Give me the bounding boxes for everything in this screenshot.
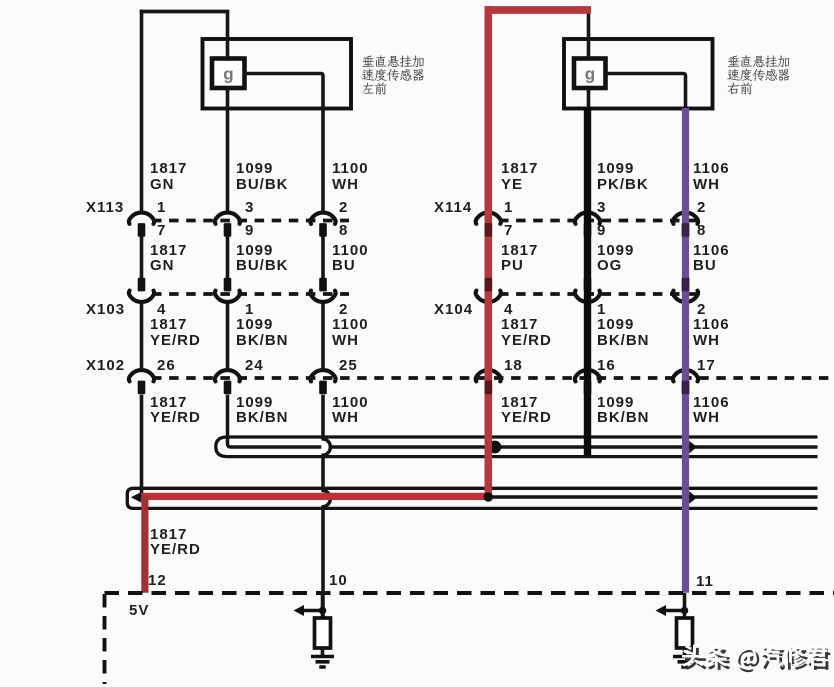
wire 1817 GN X113-X103 <box>140 237 144 279</box>
junction dot red splice <box>484 492 493 501</box>
signal arrow right (to ECU) <box>665 609 685 612</box>
pin 18 X102 <box>504 358 523 374</box>
wire: left g-box output to 1100 WH <box>245 74 324 212</box>
connector terminal X103/X104 left x=227.5 <box>215 278 240 302</box>
wire 1100 WH lower band to pin 10 and ground resistor <box>321 508 325 618</box>
pin 2 X103 <box>339 302 348 318</box>
pin 3 X114 <box>597 200 606 216</box>
pin 25 X102 <box>339 358 358 374</box>
terminal pin overlay at x=488.3 y=378 <box>485 381 493 395</box>
label circuit 1099 PK/BK top-right <box>597 161 649 192</box>
splice band upper (1099 bus) outline <box>216 437 818 457</box>
wire 1100 WH X102 to upper band hop <box>321 395 325 438</box>
connector X113 dashed line <box>152 219 349 223</box>
connector terminal X102 right x=685.5 <box>673 370 698 394</box>
label circuit 1099 BK/BN row3-right <box>597 317 650 348</box>
wire 1817 red: right vertical X114/X104/X102 <box>484 6 492 496</box>
label circuit 1099 BK/BN row4-right <box>597 395 650 426</box>
terminal pin overlay at x=685.5 y=294 <box>682 278 690 292</box>
pin 4 X103 <box>157 302 166 318</box>
connector terminal X113/X114 right x=587.5 <box>575 213 600 237</box>
pin 1 X104 <box>597 302 606 318</box>
connector terminal X102 right x=587.5 <box>575 370 600 394</box>
wire 1100 WH X113-X103 <box>321 237 325 279</box>
connector X104 label <box>434 302 473 318</box>
label circuit 1099 BU/BK top-left <box>236 161 289 192</box>
wire 1100 WH between bands <box>321 456 325 490</box>
wire: left 1099 BU/BK below g-box <box>226 88 230 212</box>
label circuit 1106 WH row4-right <box>693 395 730 426</box>
label 垂直悬挂加速度传感器 右前 <box>727 55 789 94</box>
label circuit 1099 OG row2-right <box>597 243 634 274</box>
label circuit 1099 BK/BN row4-left <box>236 395 289 426</box>
connector X102 label <box>86 358 125 374</box>
connector X104 dashed line <box>499 292 699 296</box>
junction dot left <box>319 607 327 615</box>
resistor right (pull-down) <box>677 618 693 648</box>
connector terminal X103/X104 right x=488.3 <box>476 278 501 302</box>
label circuit 1100 WH row3-left <box>332 317 369 348</box>
pin 1 X103 <box>245 302 254 318</box>
wire 1099 PK/BK thick black vertical <box>584 108 591 455</box>
wire: right g-box output to 1106 WH <box>606 74 686 111</box>
pin 24 X102 <box>245 358 264 374</box>
accelerometer element g right <box>574 59 606 89</box>
connector terminal X113/X114 right x=488.3 <box>476 213 501 237</box>
connector terminal X102 left x=323 <box>310 370 335 394</box>
pin 2 X104 <box>697 302 706 318</box>
lower band left continuation arrow <box>131 492 142 503</box>
pin 17 X102 <box>697 358 716 374</box>
label circuit 1817 YE top-right <box>501 161 538 192</box>
connector terminal X103/X104 right x=685.5 <box>673 278 698 302</box>
label circuit 1817 YE/RD row3-right <box>501 317 552 348</box>
watermark 头条@汽修君 <box>682 644 830 672</box>
label circuit 1100 BU row2-left <box>332 243 369 274</box>
connector terminal X113/X114 left x=227.5 <box>215 213 240 237</box>
internal circuit left: wire below pin <box>321 593 325 618</box>
wire: right supply drop black <box>587 8 591 59</box>
connector terminal X102 left x=227.5 <box>215 370 240 394</box>
label circuit 1817 YE/RD row3-left <box>150 317 201 348</box>
label 垂直悬挂加速度传感器 左前 <box>362 55 424 94</box>
pin 3 X113 <box>245 200 254 216</box>
connector terminal X113/X114 left x=141.5 <box>129 213 154 237</box>
pin 1 X113 <box>157 200 166 216</box>
wire 1099 BK/BN X103-X102 <box>226 304 230 370</box>
pin 2 X113 <box>339 200 348 216</box>
lower band middle wire right of red junction <box>488 495 817 499</box>
wire 1817 red: top horizontal to right sensor <box>485 6 591 14</box>
wire 1817 red: splice horizontal in lower band <box>141 493 488 500</box>
sensor box right (垂直悬挂加速度传感器 右前) <box>564 39 713 109</box>
ECU module dashed border vertical <box>103 594 107 684</box>
net 5V <box>129 603 149 619</box>
pin 7 X114 <box>504 223 513 239</box>
label circuit 1817 YE/RD row4-right <box>501 395 552 426</box>
sensor box left (垂直悬挂加速度传感器 左前) <box>203 39 352 109</box>
label circuit 1106 WH top-right <box>693 161 730 192</box>
pin 16 X102 <box>597 358 616 374</box>
wire 1817 YE/RD X103-X102 <box>140 304 144 370</box>
wire 1099 BU/BK X113-X103 <box>226 237 230 279</box>
connector X114 label <box>434 200 472 216</box>
connector X103 label <box>86 302 125 318</box>
label circuit 1817 YE/RD row4-left <box>150 395 201 426</box>
wire 1100 WH X103-X102 <box>321 304 325 370</box>
wire: right 1099 below g-box <box>587 88 591 110</box>
signal arrow left (to ECU) <box>303 609 323 612</box>
label circuit 1817 GN row2-left <box>150 243 187 274</box>
pin 8 X114 <box>697 223 706 239</box>
pin 1 X114 <box>504 200 513 216</box>
label circuit 1106 BU row2-right <box>693 243 730 274</box>
label circuit 1817 GN top-left <box>150 161 187 192</box>
terminal pin overlay at x=685.5 y=220.5 <box>682 223 690 237</box>
wire 1100 WH hop over upper band middle <box>321 439 330 455</box>
wire 1817 YE/RD X102 to splice <box>140 395 144 497</box>
hop bump: red over upper band <box>492 441 501 454</box>
pin 4 X104 <box>504 302 513 318</box>
wire: left 1817 GN vertical (X113 pin1 to loop) <box>140 10 144 212</box>
pin 2 X114 <box>697 200 706 216</box>
ground symbol left <box>311 657 334 668</box>
connector X103 dashed line <box>152 292 349 296</box>
connector X102 dashed line <box>152 376 834 380</box>
resistor left (pull-down) <box>315 618 331 648</box>
svg-text:g: g <box>585 65 595 84</box>
label circuit 1100 WH top-left <box>332 161 369 192</box>
accelerometer element g left <box>212 59 245 89</box>
internal circuit right: wire below pin <box>683 593 687 618</box>
wire 1106 WH purple vertical <box>682 108 689 593</box>
pin 10 ECU <box>329 573 348 589</box>
splice band lower (5V bus) outline <box>127 488 817 508</box>
wire resistor to ground left <box>321 648 325 657</box>
wire 1817 red: left vertical to pin 12 (5V) <box>141 496 148 592</box>
label circuit 1099 BK/BN row3-left <box>236 317 289 348</box>
terminal pin overlay at x=488.3 y=294 <box>485 278 493 292</box>
connector X114 dashed line <box>499 219 699 223</box>
wire: left sensor supply loop top <box>140 10 230 14</box>
label circuit 1100 WH row4-left <box>332 395 369 426</box>
pin 9 X113 <box>245 223 254 239</box>
connector terminal X113/X114 left x=323 <box>310 213 335 237</box>
terminal pin overlay at x=488.3 y=220.5 <box>485 223 493 237</box>
ground symbol right <box>673 657 696 668</box>
pin 11 ECU <box>696 574 714 590</box>
connector terminal X113/X114 right x=685.5 <box>673 213 698 237</box>
pin 9 X114 <box>597 223 606 239</box>
wire resistor to ground right <box>683 648 687 657</box>
label circuit 1099 BU/BK row2-left <box>236 243 289 274</box>
pin 8 X113 <box>339 223 348 239</box>
pin 12 ECU <box>148 573 167 589</box>
junction dot right <box>681 607 689 615</box>
connector terminal X102 right x=488.3 <box>476 370 501 394</box>
wire 1100 WH hop over lower band middle <box>321 490 330 506</box>
connector terminal X103/X104 left x=141.5 <box>129 278 154 302</box>
label circuit 1817 PU row2-right <box>501 243 538 274</box>
pin 26 X102 <box>157 358 176 374</box>
hop bump: purple over lower band <box>689 491 697 504</box>
connector terminal X102 left x=141.5 <box>129 370 154 394</box>
connector X113 label <box>86 200 124 216</box>
terminal pin overlay at x=685.5 y=378 <box>682 381 690 395</box>
hop bump: purple over upper band <box>689 441 697 454</box>
label circuit 1106 WH row3-right <box>693 317 730 348</box>
wire 1099 BK/BN X102 into splice band, turns right <box>228 395 818 447</box>
connector terminal X103/X104 left x=323 <box>310 278 335 302</box>
label circuit 1817 YE/RD 5V feed <box>150 527 201 558</box>
ECU module dashed border horizontal <box>105 591 834 595</box>
pin 7 X113 <box>157 223 166 239</box>
connector terminal X103/X104 right x=587.5 <box>575 278 600 302</box>
wire: left 1099 loop-to-gbox vertical <box>226 12 230 59</box>
svg-text:g: g <box>223 65 233 84</box>
